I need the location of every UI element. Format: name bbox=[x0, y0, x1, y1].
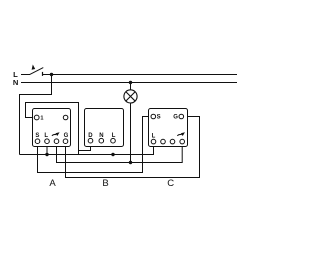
svg-text:N: N bbox=[13, 78, 18, 87]
box C outline bbox=[149, 109, 188, 147]
node N lamp junction dot bbox=[129, 81, 132, 84]
svg-text:G: G bbox=[64, 133, 69, 139]
switch S fixed contact bbox=[42, 72, 44, 76]
wire A-T2 stub to bus1 bbox=[46, 144, 48, 155]
box C terminal G circle bbox=[179, 114, 184, 119]
box B outline bbox=[85, 109, 124, 147]
node L junction dot bbox=[50, 73, 53, 76]
node bus1 A-L junction dot bbox=[45, 153, 48, 156]
box C terminal 3 circle bbox=[170, 139, 175, 144]
svg-text:S: S bbox=[35, 133, 39, 139]
wire bus2 output bus A-T3 to C-T2 bbox=[57, 144, 183, 163]
svg-text:B: B bbox=[102, 178, 108, 189]
svg-text:C: C bbox=[167, 178, 174, 189]
svg-text:L: L bbox=[112, 133, 116, 139]
box A terminal arrow circle bbox=[54, 139, 59, 144]
box C terminal L circle bbox=[151, 139, 156, 144]
svg-text:L: L bbox=[44, 133, 48, 139]
svg-text:N: N bbox=[99, 133, 103, 139]
node bus1 B-L junction dot bbox=[111, 153, 114, 156]
box A terminal circle top-right bbox=[63, 115, 68, 120]
box C dimmer arrow icon bbox=[177, 134, 181, 135]
wire bus1 L-bus bbox=[20, 146, 154, 155]
lamp E1 bbox=[124, 90, 137, 103]
node lamp bus2 junction dot bbox=[129, 161, 132, 164]
wire N supply line bbox=[21, 82, 237, 84]
svg-text:1: 1 bbox=[40, 116, 43, 122]
wire C-T1 stub to bus1 bbox=[153, 144, 155, 155]
box A terminal G circle bbox=[63, 139, 68, 144]
svg-text:G: G bbox=[173, 114, 178, 120]
box C terminal 2 circle bbox=[161, 139, 166, 144]
svg-text:A: A bbox=[49, 178, 56, 189]
box B terminal D circle bbox=[88, 138, 93, 143]
box B terminal L circle bbox=[111, 138, 116, 143]
box A outline bbox=[33, 109, 71, 147]
box A dimmer arrow icon bbox=[52, 134, 56, 135]
svg-text:L: L bbox=[152, 134, 156, 140]
box C terminal 4 circle bbox=[180, 139, 185, 144]
svg-text:S: S bbox=[157, 114, 161, 120]
box A terminal circle 1 bbox=[34, 115, 39, 120]
switch S actuator arrow bbox=[32, 65, 36, 70]
svg-text:D: D bbox=[88, 133, 93, 139]
box A terminal S circle bbox=[35, 139, 40, 144]
wire W1 from L dot down-left to bus1 bbox=[20, 75, 52, 155]
wire lamp top lead bbox=[130, 83, 132, 91]
wire W2 from A circle1 over box A to D-drop bbox=[26, 103, 79, 155]
box A terminal L circle bbox=[45, 139, 50, 144]
wire D lead of box B bbox=[79, 143, 91, 151]
wire bus4 G-bus A-T4 to C-G bbox=[66, 117, 200, 178]
box B terminal N circle bbox=[99, 138, 104, 143]
switch S blade bbox=[30, 68, 44, 75]
box C terminal S circle bbox=[151, 114, 156, 119]
wire lamp bottom lead to bus2 bbox=[130, 103, 132, 163]
wire L supply line bbox=[21, 74, 237, 76]
wire bus3 S-bus A-T1 to C-S bbox=[38, 117, 152, 173]
